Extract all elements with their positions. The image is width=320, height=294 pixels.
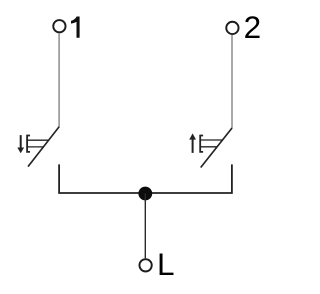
switch S2 lever bbox=[201, 128, 232, 168]
switch S2 arrow (up) bbox=[189, 133, 196, 153]
terminal circle 1 bbox=[53, 20, 65, 32]
switch S1 lever bbox=[28, 127, 59, 167]
wire from terminal 2 bbox=[231, 35, 233, 128]
switch S1 actuator bracket bbox=[27, 136, 30, 152]
switch S2 actuator link lower bbox=[200, 146, 217, 148]
wire junction to terminal L bbox=[144, 193, 146, 258]
label 1 bbox=[71, 17, 80, 38]
junction dot bbox=[138, 187, 152, 201]
wire from terminal 1 bbox=[58, 33, 60, 127]
switch S1 arrow (down) bbox=[17, 135, 24, 153]
terminal circle 2 bbox=[226, 22, 238, 34]
switch S1 actuator link lower bbox=[27, 146, 44, 148]
switch S2 actuator link upper bbox=[200, 139, 222, 141]
svg-text:2: 2 bbox=[244, 9, 262, 45]
terminal circle L bbox=[139, 259, 151, 271]
switch S2 actuator bracket bbox=[200, 136, 203, 152]
switch S1 actuator link upper bbox=[27, 139, 49, 141]
bus wire with end stubs bbox=[59, 164, 232, 193]
svg-text:L: L bbox=[157, 246, 175, 282]
